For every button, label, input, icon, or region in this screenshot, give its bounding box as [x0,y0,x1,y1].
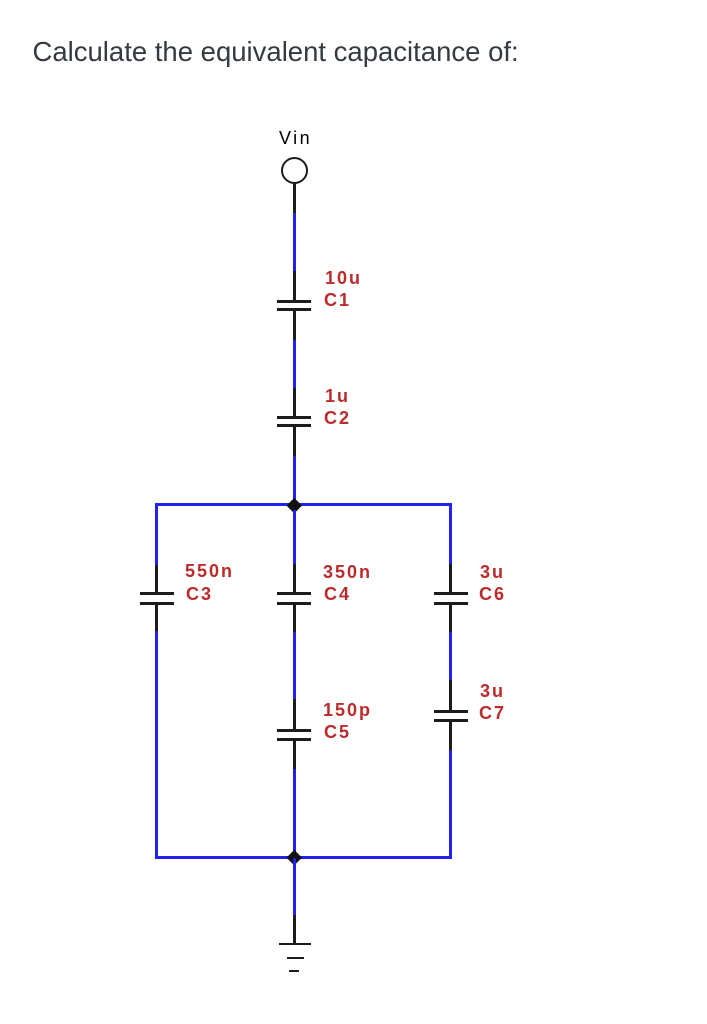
wire C6 to C7 [449,632,452,681]
capacitor C1 top pin [293,271,296,300]
capacitor C2 top pin [293,388,296,416]
wire C4 to C5 [293,632,296,700]
capacitor C5 bottom plate [277,738,311,741]
ground bar 3 [289,970,299,973]
wire Vin pin [293,183,296,214]
capacitor C6 bottom pin [449,605,452,633]
wire right branch upper [449,506,452,565]
capacitor C6 top pin [449,564,452,592]
capacitor C5 top plate [277,729,311,732]
capacitor C2 bottom pin [293,427,296,456]
capacitor C3 top plate [140,592,174,595]
label C4 [324,585,351,603]
label C3 [186,585,213,603]
capacitor C1 top plate [277,300,311,303]
ground bar 2 [287,957,304,960]
capacitor C6 bottom plate [434,602,468,605]
node A junction [287,498,302,513]
label C1 value 10u [325,269,362,287]
label C2 value 1u [325,387,350,405]
label C7 value 3u [480,682,505,700]
capacitor C4 top plate [277,592,311,595]
wire node A to C4 [293,510,296,565]
label C2 [324,409,351,427]
capacitor C3 bottom plate [140,602,174,605]
node B junction [287,849,302,864]
capacitor C2 top plate [277,416,311,419]
label C5 value 150p [323,701,372,719]
wire Vin to C1 [293,213,296,271]
wire top horizontal bus [155,503,452,506]
capacitor C5 bottom pin [293,741,296,769]
capacitor C3 bottom pin [155,605,158,633]
node Vin label [279,129,312,147]
capacitor C7 bottom pin [449,722,452,750]
ground pin [293,915,296,944]
wire left branch lower [155,631,158,856]
capacitor C4 bottom pin [293,605,296,633]
capacitor C7 top plate [434,710,468,713]
label C7 [479,704,506,722]
ground bar 1 [279,943,311,946]
capacitor C5 top pin [293,699,296,729]
wire bottom horizontal bus [155,856,452,859]
label C1 [324,291,351,309]
wire C1 to C2 [293,340,296,388]
capacitor C6 top plate [434,592,468,595]
capacitor C3 top pin [155,565,158,592]
terminal Vin [281,157,308,184]
label C5 [324,723,351,741]
capacitor C2 bottom plate [277,424,311,427]
wire C2 to node A [293,456,296,506]
wire left branch upper [155,506,158,566]
capacitor C1 bottom plate [277,308,311,311]
capacitor C7 bottom plate [434,719,468,722]
title text [33,38,519,66]
capacitor C4 top pin [293,564,296,592]
capacitor C7 top pin [449,680,452,710]
wire C5 to node B [293,769,296,856]
wire node B to ground [293,858,296,915]
capacitor C4 bottom plate [277,602,311,605]
label C3 value 550n [185,562,234,580]
label C6 [479,585,506,603]
wire right branch lower [449,750,452,856]
capacitor C1 bottom pin [293,311,296,340]
label C4 value 350n [323,563,372,581]
label C6 value 3u [480,563,505,581]
